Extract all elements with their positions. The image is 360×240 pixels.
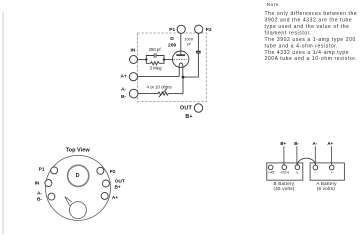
wire junction down to rheostat: [182, 77, 184, 94]
top view board circle: [46, 155, 111, 220]
wire C2 down to corner: [183, 53, 198, 77]
svg-text:P2: P2: [206, 27, 212, 33]
wire to grid: [164, 59, 173, 61]
svg-text:OUT: OUT: [115, 178, 125, 184]
board outline (dashed): [138, 33, 207, 102]
wire A-/B- to rheostat: [138, 93, 158, 95]
svg-text:+45: +45: [268, 171, 274, 175]
tube grid (dashed): [174, 59, 187, 61]
terminal OUT B+: [194, 104, 202, 112]
wire plate to P1: [180, 33, 182, 55]
left page border line: [2, 12, 4, 234]
svg-text:The only differences between t: The only differences between the: [265, 11, 358, 17]
terminal P1: [177, 25, 185, 33]
top view terminal A+: [101, 192, 108, 199]
svg-text:A-: A-: [37, 190, 42, 196]
svg-text:D: D: [76, 173, 80, 179]
svg-text:filament resistor.: filament resistor.: [265, 31, 312, 37]
rheostat knob: [69, 202, 86, 219]
B battery terminal +45: [268, 165, 273, 170]
svg-text:o: o: [296, 171, 298, 175]
wire A+ to filament: [138, 76, 180, 78]
B battery terminal +22.5: [282, 165, 287, 170]
lead wire B+: [283, 146, 285, 165]
rheostat knob pointer: [65, 197, 72, 206]
svg-text:A+: A+: [327, 141, 333, 146]
B battery terminal minus: [295, 165, 300, 170]
svg-text:4 or 10 ohms: 4 or 10 ohms: [147, 85, 172, 90]
lead wire A-: [314, 146, 316, 165]
svg-text:B+: B+: [185, 114, 192, 120]
svg-text:A-: A-: [312, 141, 317, 146]
capacitor C1 250 pf (top branch): [146, 53, 164, 59]
tube plate: [176, 54, 185, 56]
svg-text:B+: B+: [280, 141, 286, 146]
svg-text:A+: A+: [112, 195, 118, 201]
svg-text:(45 volts): (45 volts): [274, 186, 295, 191]
svg-text:type used and the value of the: type used and the value of the: [265, 24, 350, 30]
svg-text:3 Meg: 3 Meg: [150, 65, 163, 70]
svg-text:D: D: [170, 36, 174, 42]
terminal IN: [130, 56, 138, 64]
svg-text:3902 and the 4332 are the tube: 3902 and the 4332 are the tube: [265, 18, 353, 24]
B battery box: [267, 163, 303, 180]
svg-text:IN: IN: [35, 181, 40, 187]
tube D 200 envelope: [173, 51, 189, 67]
terminal A+: [129, 73, 137, 81]
svg-text:250 pf: 250 pf: [149, 47, 162, 52]
svg-text:The 3902 uses a 1-amp type 200: The 3902 uses a 1-amp type 200: [265, 37, 356, 43]
terminal P2: [195, 25, 203, 33]
A battery terminal minus: [313, 165, 318, 170]
lead wire A+: [331, 146, 333, 165]
top view terminal P1: [51, 167, 58, 174]
svg-text:200: 200: [168, 42, 176, 48]
svg-text:The 4332 uses a 1/4-amp type: The 4332 uses a 1/4-amp type: [265, 50, 350, 56]
svg-text:OUT: OUT: [180, 106, 193, 112]
svg-text:IN: IN: [131, 47, 136, 53]
resistor R1 3 Meg (bottom branch): [146, 60, 164, 65]
svg-text:tube and a 4-ohm resistor.: tube and a 4-ohm resistor.: [265, 43, 339, 49]
top view terminal A- B-: [48, 193, 55, 200]
top view terminal IN: [45, 180, 52, 187]
svg-text:+22½: +22½: [280, 171, 289, 175]
svg-text:B-: B-: [37, 197, 42, 203]
svg-text:+: +: [331, 170, 333, 174]
A battery terminal plus: [329, 165, 334, 170]
svg-text:B-: B-: [121, 94, 127, 100]
note text block: [265, 2, 358, 62]
svg-text:P1: P1: [169, 27, 175, 33]
node right of RC: [163, 58, 165, 60]
svg-text:Top View: Top View: [66, 147, 91, 153]
svg-text:P2: P2: [110, 169, 116, 175]
node left of RC: [145, 58, 147, 60]
svg-text:200A tube and a 10-ohm resisto: 200A tube and a 10-ohm resistor.: [265, 56, 358, 62]
capacitor C2 1000 uf: [196, 50, 201, 52]
lead wire B-: [296, 146, 298, 165]
tube filament: [179, 63, 183, 77]
rheostat R2 4 or 10 ohms: [158, 89, 183, 98]
svg-text:B-: B-: [294, 141, 299, 146]
junction node: [182, 76, 185, 79]
top view terminal P2: [97, 167, 104, 174]
A battery box: [310, 163, 344, 180]
svg-text:P1: P1: [39, 167, 45, 173]
svg-text:B+: B+: [114, 185, 120, 191]
svg-text:A-: A-: [121, 87, 127, 93]
svg-text:A+: A+: [120, 74, 127, 80]
svg-text:Note: Note: [267, 2, 279, 7]
svg-text:(6 volts): (6 volts): [317, 186, 335, 191]
wire P2 down to capacitor C2: [197, 33, 199, 51]
wire IN to RC network: [138, 59, 147, 61]
jumper wire B- to A-: [297, 158, 315, 165]
top view terminal OUT B+: [102, 180, 109, 187]
tube socket D: [68, 165, 89, 186]
terminal A- B-: [129, 89, 138, 98]
